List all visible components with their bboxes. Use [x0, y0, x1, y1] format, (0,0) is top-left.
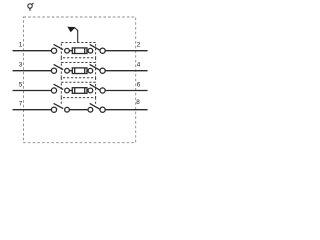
svg-text:5: 5 [19, 82, 23, 89]
svg-text:7: 7 [19, 101, 23, 108]
svg-text:8: 8 [136, 99, 140, 106]
svg-text:2: 2 [137, 42, 141, 49]
svg-text:3: 3 [19, 62, 23, 69]
svg-text:4: 4 [137, 62, 141, 69]
svg-text:1: 1 [19, 42, 23, 49]
svg-text:6: 6 [137, 81, 141, 88]
